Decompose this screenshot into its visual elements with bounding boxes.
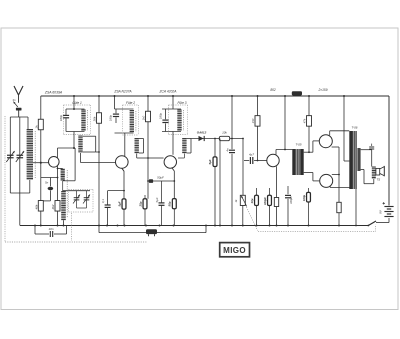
svg-text:OA612: OA612 — [197, 131, 207, 135]
svg-text:47k: 47k — [303, 118, 307, 123]
svg-text:10n: 10n — [48, 227, 53, 231]
svg-text:ZSA N237A: ZSA N237A — [113, 90, 132, 94]
svg-text:1k: 1k — [34, 125, 38, 129]
svg-text:TS: TS — [376, 178, 380, 182]
svg-text:180p: 180p — [158, 112, 162, 119]
svg-text:180p: 180p — [59, 114, 63, 121]
svg-text:50µ: 50µ — [168, 201, 172, 206]
svg-text:802: 802 — [270, 88, 276, 92]
svg-text:Füte 3: Füte 3 — [177, 101, 186, 105]
svg-text:180p: 180p — [109, 114, 113, 121]
svg-text:5µF: 5µF — [208, 159, 212, 164]
svg-text:5µF: 5µF — [155, 197, 159, 202]
svg-text:2×159: 2×159 — [318, 88, 328, 92]
svg-text:25µ: 25µ — [138, 201, 142, 207]
svg-text:4n: 4n — [226, 148, 230, 152]
svg-text:50µF: 50µF — [157, 175, 164, 179]
svg-text:T-06: T-06 — [351, 126, 357, 130]
svg-text:10k: 10k — [222, 131, 227, 135]
svg-text:20k: 20k — [93, 116, 97, 122]
svg-text:1k0: 1k0 — [142, 115, 146, 120]
svg-text:ZCA 4202A: ZCA 4202A — [159, 90, 178, 94]
svg-text:MIGO: MIGO — [223, 246, 246, 255]
svg-text:5µF: 5µF — [117, 201, 121, 206]
svg-text:100µF: 100µF — [263, 197, 267, 205]
svg-text:10µ: 10µ — [250, 198, 254, 203]
svg-text:Füte 2: Füte 2 — [126, 101, 135, 105]
svg-text:4µ7: 4µ7 — [249, 153, 254, 157]
svg-text:ZSA 6039A: ZSA 6039A — [44, 90, 63, 94]
svg-text:2k2: 2k2 — [51, 204, 55, 210]
svg-text:40k: 40k — [34, 204, 38, 209]
svg-text:0,1: 0,1 — [101, 199, 105, 203]
svg-text:100µ: 100µ — [302, 194, 306, 201]
svg-text:Güte 1: Güte 1 — [72, 101, 82, 105]
svg-text:5n: 5n — [45, 180, 49, 184]
svg-text:100µF: 100µF — [289, 196, 293, 204]
svg-text:T-05: T-05 — [295, 143, 301, 147]
svg-text:150: 150 — [251, 118, 255, 123]
